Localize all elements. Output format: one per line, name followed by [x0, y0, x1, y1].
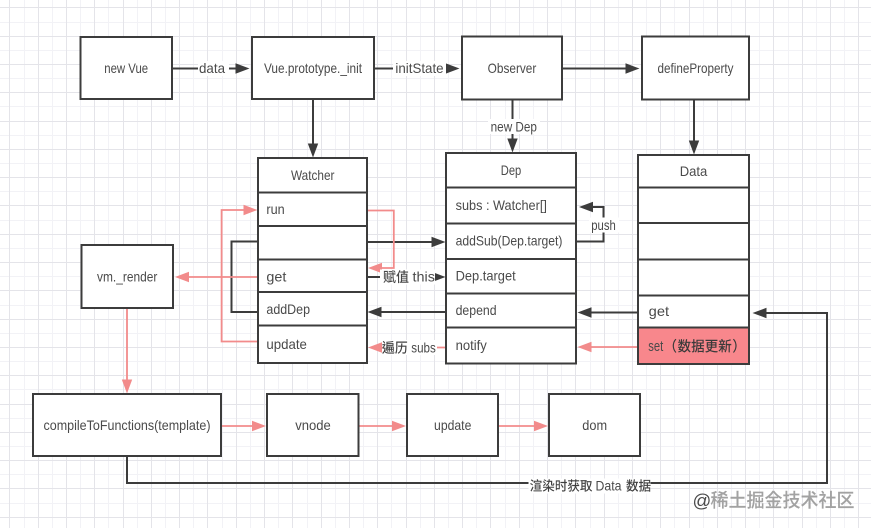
svg-text:@: @ [693, 490, 712, 511]
svg-text:vm._render: vm._render [97, 270, 158, 285]
svg-text:addDep: addDep [266, 302, 310, 317]
svg-text:update: update [434, 418, 471, 433]
svg-text:Dep.target: Dep.target [456, 269, 516, 284]
svg-text:Observer: Observer [488, 61, 537, 76]
svg-text:this: this [413, 270, 436, 285]
svg-text:update: update [266, 337, 307, 352]
svg-text:new Vue: new Vue [104, 61, 148, 76]
svg-text:defineProperty: defineProperty [658, 61, 734, 76]
svg-text:dom: dom [582, 418, 607, 433]
svg-text:depend: depend [456, 303, 497, 318]
svg-text:get: get [266, 270, 286, 285]
svg-text:compileToFunctions(template): compileToFunctions(template) [44, 418, 211, 433]
svg-text:Vue.prototype._init: Vue.prototype._init [264, 61, 362, 76]
svg-text:initState: initState [395, 61, 443, 76]
svg-text:notify: notify [456, 338, 487, 353]
svg-text:Data: Data [680, 164, 708, 179]
svg-text:Watcher: Watcher [291, 168, 335, 183]
svg-text:vnode: vnode [295, 418, 331, 433]
svg-text:subs : Watcher[]: subs : Watcher[] [456, 198, 547, 213]
svg-text:data: data [199, 61, 225, 76]
svg-text:new Dep: new Dep [491, 120, 537, 135]
svg-text:run: run [266, 202, 284, 217]
svg-text:Data: Data [596, 478, 622, 493]
svg-text:set: set [648, 339, 663, 355]
svg-text:subs: subs [411, 340, 436, 355]
svg-text:Dep: Dep [501, 163, 522, 178]
svg-text:push: push [591, 218, 616, 233]
svg-text:addSub(Dep.target): addSub(Dep.target) [456, 234, 563, 249]
svg-text:get: get [649, 304, 670, 319]
